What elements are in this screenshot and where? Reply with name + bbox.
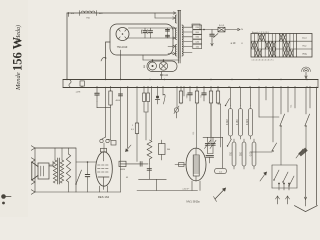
junction dot bbox=[203, 29, 205, 31]
padder capacitor Ca bbox=[144, 28, 146, 31]
speaker LS1 magnet box bbox=[38, 163, 49, 179]
svg-text:NV1 SN2a: NV1 SN2a bbox=[186, 200, 200, 204]
wire x137 to rect line bbox=[136, 135, 138, 162]
wire x76 vertical bbox=[75, 148, 77, 192]
wire lamp feed bbox=[143, 59, 179, 61]
oval component 0,1 bbox=[215, 168, 227, 173]
antenna input tick bbox=[68, 13, 70, 17]
secondary tap leads bbox=[184, 26, 192, 28]
arrow into transformer top bbox=[174, 12, 176, 14]
switch near tube bbox=[76, 170, 82, 184]
wire drop x273 bbox=[272, 87, 274, 142]
tone arrow bbox=[126, 145, 132, 152]
table cross marks bbox=[258, 34, 261, 41]
socket circles bbox=[100, 139, 103, 142]
electrolytic cap C5 bbox=[157, 87, 159, 95]
wire top line output section bbox=[35, 147, 76, 149]
capacitor C8 small bbox=[147, 168, 151, 170]
resistor R2 grid bbox=[110, 90, 112, 91]
transformer primary winding group2 bbox=[175, 28, 176, 40]
secondary winding bbox=[182, 25, 183, 56]
wire drop x127.7 bbox=[127, 87, 129, 148]
wire y137 cluster top bbox=[203, 136, 223, 138]
svg-text:a 19: a 19 bbox=[231, 42, 236, 45]
bus right end bbox=[317, 80, 319, 88]
lamp housing box bbox=[147, 61, 177, 72]
output transformer T2 secondary bbox=[60, 160, 63, 183]
wire x211 down bbox=[210, 104, 212, 145]
wire bottom left bbox=[35, 191, 121, 193]
switch S6 bbox=[289, 176, 294, 186]
variable capacitor CV1 bbox=[207, 137, 209, 142]
earth V arrow bbox=[305, 150, 307, 206]
switch S5 bbox=[283, 172, 288, 182]
terminal blob bbox=[1, 194, 6, 199]
capacitor C11 bbox=[87, 162, 89, 175]
wire box bottom stub bbox=[120, 50, 122, 80]
dial lamp La2 bbox=[159, 62, 167, 70]
capacitor roll 700 bbox=[232, 142, 236, 166]
tube V1 detector circle bbox=[116, 28, 129, 41]
wire drop x137 bbox=[136, 87, 138, 122]
wave switch table bbox=[251, 34, 312, 58]
capacitor C7 bbox=[203, 87, 205, 93]
primary tap leads bbox=[168, 45, 173, 47]
svg-text:0,024: 0,024 bbox=[247, 119, 249, 125]
svg-text:u 1 u 2 u 3 u 4 u 5 u 6 u 7 u: u 1 u 2 u 3 u 4 u 5 u 6 u 7 u bbox=[252, 59, 274, 61]
resistor R3 bbox=[136, 122, 138, 123]
output tube V2 bbox=[96, 152, 113, 186]
wire drop x177 long bbox=[176, 87, 178, 107]
bus upper bbox=[63, 79, 318, 81]
svg-text:750 A019: 750 A019 bbox=[117, 46, 128, 49]
wire tube to caps upper bbox=[128, 27, 173, 29]
bus lower bbox=[63, 87, 318, 89]
trimmer capacitor C2 bbox=[166, 34, 170, 36]
wire rect tube anode feed bbox=[196, 104, 198, 148]
plug pin arrows bbox=[277, 196, 279, 204]
wire right of cluster bbox=[222, 137, 224, 167]
output transformer T2 core bbox=[57, 158, 59, 184]
antenna coil L1 bbox=[81, 11, 95, 13]
wire drop x151.5 bbox=[151, 87, 153, 140]
svg-text:Wdlg: Wdlg bbox=[302, 53, 307, 55]
twin resistor R4a bbox=[143, 93, 146, 102]
wire stems rolls bbox=[230, 87, 232, 106]
wire x156.4 down bbox=[155, 179, 157, 190]
wire cap to resistor bbox=[96, 102, 98, 108]
svg-text:O: O bbox=[241, 43, 243, 45]
small box above tube bbox=[111, 141, 116, 146]
capacitor roll 0,022 bbox=[229, 109, 233, 137]
speaker cone bbox=[32, 162, 38, 180]
wire anode feed x105.6 bbox=[105, 87, 107, 137]
capacitor C6 bbox=[189, 87, 191, 93]
grid leak squiggle bbox=[101, 57, 106, 61]
padder capacitor Cb bbox=[150, 28, 152, 31]
capacitor on wire bbox=[139, 162, 141, 167]
svg-text:890 A11: 890 A11 bbox=[160, 74, 169, 77]
capacitor C3 bbox=[211, 30, 213, 35]
wire x149.3 down bbox=[148, 164, 150, 179]
rectifier tube V3 bbox=[186, 148, 206, 181]
svg-text:Heiz: Heiz bbox=[302, 45, 306, 47]
capacitor C10 flat bbox=[206, 154, 214, 156]
svg-text:Si 0,9: Si 0,9 bbox=[219, 25, 225, 27]
wire x218 down to cap bbox=[220, 104, 222, 147]
wire tube to caps lower bbox=[128, 37, 173, 39]
fuse F1 bbox=[218, 27, 225, 32]
wire drop x288 bbox=[287, 87, 289, 112]
wire drop x310 bbox=[309, 87, 311, 108]
wire y179.3 bbox=[139, 178, 167, 180]
wire after fuse arrow bbox=[225, 29, 238, 31]
wire drop x184 bbox=[183, 87, 185, 96]
mains cord arrow bbox=[215, 188, 226, 199]
antenna terminal bbox=[302, 67, 311, 72]
transformer T1 core bbox=[177, 11, 179, 59]
wire grid chain down bbox=[110, 106, 112, 140]
svg-text:a 50 V~: a 50 V~ bbox=[183, 188, 191, 190]
wire vertical x106 to bus bbox=[105, 42, 107, 80]
resistor box 300 bbox=[159, 144, 166, 155]
resistor R7 bbox=[210, 90, 212, 91]
svg-text:0M20: 0M20 bbox=[120, 169, 126, 171]
resistor R6 bbox=[196, 90, 198, 91]
wire left vertical to bus bbox=[66, 13, 68, 80]
switch small near rolls bbox=[226, 99, 230, 106]
hatched mains bar bbox=[298, 148, 307, 157]
wire collector to fuse bbox=[191, 24, 193, 27]
resistor R9 zigzag bbox=[66, 154, 70, 182]
dial lamp La1 bbox=[149, 62, 157, 70]
twin resistor R4b bbox=[147, 93, 150, 102]
resistor R5 bbox=[180, 90, 182, 91]
wire twin join bbox=[144, 111, 148, 113]
switch cluster frame bbox=[272, 164, 297, 166]
tube left wire with resistor bbox=[175, 164, 186, 166]
switch S3 bbox=[272, 150, 274, 152]
svg-text:RES 164: RES 164 bbox=[98, 195, 110, 199]
contact dots row bbox=[278, 183, 280, 185]
resistor R1 on bus bbox=[80, 81, 84, 86]
switch S1 bbox=[280, 125, 282, 127]
lead y18 into winding bbox=[154, 13, 156, 18]
switch f drop bbox=[163, 94, 165, 104]
wire box to left drop bbox=[106, 41, 110, 43]
trimmer capacitor C1 bbox=[166, 29, 170, 31]
transformer primary winding group3 bbox=[175, 45, 176, 57]
wire y162 to tube bbox=[76, 161, 96, 163]
title Mende 156 W (Heda) rotated on left margin bbox=[11, 25, 25, 91]
svg-text:(Heda): (Heda) bbox=[15, 25, 22, 42]
wire y190.5 long bbox=[137, 190, 198, 192]
wire drop x295 bbox=[294, 87, 296, 108]
switch S4 bbox=[274, 170, 279, 180]
trimmer diag bbox=[214, 34, 219, 38]
pot wiper circle bbox=[174, 108, 178, 112]
svg-text:Mende: Mende bbox=[15, 72, 22, 91]
wire join under variable caps bbox=[208, 153, 214, 155]
wire y152 link bbox=[250, 151, 272, 153]
wire drop x266 bbox=[265, 87, 267, 100]
svg-text:0,160: 0,160 bbox=[237, 119, 239, 125]
variable capacitor CV2 bbox=[212, 137, 214, 142]
capacitor roll 500 bbox=[242, 142, 246, 166]
small mains arrow bbox=[260, 172, 267, 181]
detector shield box bbox=[110, 24, 173, 55]
down arrow under cap bbox=[211, 41, 213, 45]
output transformer T2 primary bbox=[53, 160, 56, 183]
capacitor on x120.5 drop bbox=[119, 93, 123, 95]
wire y163.9 rect line bbox=[121, 163, 149, 165]
voltage labels bbox=[193, 25, 202, 29]
capacitor roll 0,160 bbox=[239, 109, 243, 137]
wire drop x259 bbox=[258, 87, 260, 117]
transformer primary winding group1 bbox=[175, 15, 176, 23]
switch S2 bbox=[305, 125, 307, 127]
wire OT connections bbox=[49, 164, 53, 166]
wire antenna line bbox=[67, 12, 174, 14]
capacitor roll 0,01 bbox=[252, 142, 256, 166]
capacitor C4 bbox=[96, 87, 98, 93]
speaker terminal forks bbox=[31, 146, 35, 148]
bus left end vertical bbox=[62, 80, 64, 88]
resistor R8 bbox=[217, 90, 219, 91]
wire inner vertical bbox=[167, 28, 169, 38]
rectifier cell box bbox=[119, 161, 126, 166]
filter choke L4 bbox=[147, 140, 152, 159]
small coil between buses bbox=[69, 80, 71, 87]
wire speaker left vertical bbox=[34, 148, 36, 192]
capacitor roll 0,024 bbox=[249, 109, 253, 137]
svg-text:0,022: 0,022 bbox=[227, 119, 229, 125]
